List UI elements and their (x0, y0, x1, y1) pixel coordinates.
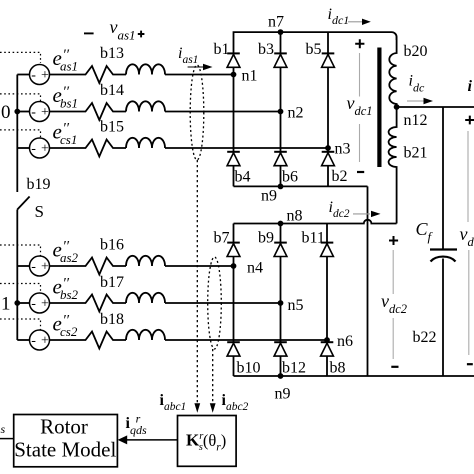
svg-text:State Model: State Model (14, 438, 116, 462)
vdc2 measurement line (392, 250, 394, 294)
svg-text:n2: n2 (288, 105, 304, 122)
node n5 (278, 300, 284, 306)
output measurement plus (465, 116, 474, 125)
svg-text:as2: as2 (60, 250, 79, 265)
control dashed line to source e''cs1 (0, 130, 41, 138)
measuring ellipse i_abc1 (190, 65, 204, 160)
node 1 (14, 300, 20, 306)
output measurement minus (467, 363, 473, 365)
node n9 bridge1 (278, 184, 284, 190)
switch S blade (17, 197, 29, 210)
wire row cs2 to n6 (165, 339, 327, 341)
wire stub to source as2 (17, 265, 29, 267)
svg-text:+: + (41, 260, 49, 275)
vdc2 measurement minus (391, 366, 398, 368)
inductor b21 (389, 107, 397, 224)
capacitor Cf branch wire bottom (442, 259, 444, 377)
svg-text:b16: b16 (100, 237, 124, 254)
svg-text:b3: b3 (258, 41, 274, 58)
source e''as2 (30, 256, 50, 276)
svg-text:Rotor: Rotor (40, 414, 88, 438)
svg-text:+: + (41, 68, 49, 83)
wire stub to source bs1 (17, 111, 29, 113)
wire bridge2 leg3 (326, 224, 328, 377)
wire row as1 to n1 (165, 74, 234, 76)
wire bridge2 leg2 (280, 224, 282, 377)
node n6 (324, 337, 330, 343)
wire stub to source cs2 (17, 339, 29, 341)
node 0 (14, 109, 20, 115)
resistor b16 (50, 258, 127, 275)
source e''bs1 (30, 102, 50, 122)
wire left bus lower (node 1) (16, 210, 18, 341)
source e''as1 (30, 65, 50, 85)
svg-text:b15: b15 (100, 119, 124, 136)
diode b4 (227, 152, 250, 186)
wire row bs1 to n2 (165, 111, 281, 113)
dashed arrow i_abc1 to K block (196, 160, 198, 404)
diode b1 (214, 41, 240, 67)
node n2 (278, 109, 284, 115)
svg-text:n5: n5 (288, 297, 304, 314)
svg-text:n9: n9 (275, 386, 291, 403)
measuring ellipse i_abc2 (208, 257, 222, 349)
diode b6 (274, 152, 298, 186)
resistor b17 (50, 295, 127, 312)
svg-text:+: + (41, 334, 49, 349)
svg-text:1: 1 (1, 294, 11, 315)
wire row cs1 to n3 (165, 147, 328, 149)
wire stub to source as1 (17, 74, 29, 76)
diode b11 (302, 230, 334, 257)
output measurement line (467, 131, 469, 222)
block K_s^r(theta_r) (178, 416, 237, 467)
resistor b14 (50, 103, 127, 120)
svg-text:S: S (35, 202, 44, 221)
svg-text:+: + (41, 297, 49, 312)
diode b7 (214, 230, 240, 257)
wire bridge1 top rail n7 (234, 32, 397, 186)
diode b12 (274, 342, 306, 376)
node n1 (231, 72, 237, 78)
svg-text:cs2: cs2 (60, 324, 78, 339)
svg-text:b10: b10 (237, 360, 261, 377)
svg-text:n7: n7 (268, 14, 284, 31)
svg-text:b8: b8 (330, 360, 346, 377)
svg-text:cs1: cs1 (60, 132, 77, 147)
svg-text:-: - (31, 334, 36, 349)
svg-text:n12: n12 (404, 112, 428, 129)
vdc2 measurement plus (389, 236, 398, 245)
wire n12 to output (397, 106, 474, 108)
resistor b13 (50, 66, 127, 83)
svg-text:b11: b11 (302, 230, 325, 247)
svg-text:b20: b20 (404, 43, 428, 60)
svg-text:-: - (31, 68, 36, 83)
control dashed line to source e''as2 (0, 245, 41, 256)
transformer core bar (377, 48, 381, 168)
diode b8 (321, 342, 346, 376)
node n12 (394, 104, 400, 110)
diode b10 (227, 342, 260, 376)
diode b9 (258, 230, 287, 257)
wire bridge2 top rail n8 with hop (234, 220, 397, 224)
svg-text:b13: b13 (100, 45, 124, 62)
wire bridge2 bottom rail n9 (234, 375, 474, 377)
diode b3 (258, 41, 287, 67)
inductor Las2 (126, 256, 165, 266)
svg-text:n1: n1 (242, 68, 258, 85)
node n9 bridge2 (278, 373, 284, 379)
diode b2 (322, 152, 348, 185)
inductor Lcs2 (126, 330, 165, 340)
wire bridge1 bottom rail n9 (234, 185, 368, 187)
svg-text:-: - (31, 105, 36, 120)
node n3 (325, 145, 331, 151)
svg-text:s: s (1, 422, 6, 436)
svg-text:n9: n9 (261, 188, 277, 205)
label - v_as1 + (84, 32, 94, 34)
svg-text:-: - (31, 297, 36, 312)
svg-text:b7: b7 (214, 230, 230, 247)
capacitor Cf branch wire top (442, 107, 444, 249)
vdc1 measurement minus (357, 171, 364, 173)
svg-text:b17: b17 (100, 274, 124, 291)
wire stub to source cs1 (17, 147, 29, 149)
svg-text:b18: b18 (100, 311, 124, 328)
svg-text:+: + (41, 105, 49, 120)
svg-text:b19: b19 (27, 176, 51, 193)
wire bridge1 leg2 (280, 32, 282, 186)
inductor Lbs1 (126, 101, 165, 111)
source e''cs2 (30, 330, 50, 350)
control dashed line to source e''bs1 (0, 94, 41, 101)
wire bridge1 leg3 (327, 32, 329, 186)
svg-text:bs1: bs1 (60, 96, 78, 111)
svg-text:as1: as1 (60, 59, 78, 74)
wire bridge2 leg1 (233, 224, 235, 377)
svg-text:b12: b12 (282, 360, 306, 377)
inductor Lcs1 (126, 138, 165, 148)
svg-text:b5: b5 (306, 41, 322, 58)
svg-text:n4: n4 (247, 260, 263, 277)
svg-text:b9: b9 (258, 230, 274, 247)
node n7 (278, 29, 284, 35)
wire row bs2 to n5 (165, 302, 281, 304)
wire stub to source bs2 (17, 302, 29, 304)
svg-text:n6: n6 (337, 333, 353, 350)
inductor Las1 (126, 64, 165, 74)
block rotor state model (14, 415, 118, 467)
control dashed line to source e''bs2 (0, 284, 41, 293)
svg-text:+: + (41, 142, 49, 157)
svg-text:b6: b6 (282, 169, 298, 186)
vdc1 measurement line (359, 53, 361, 97)
inductor b20 (389, 37, 396, 107)
wire left bus upper (node 0) (16, 75, 18, 193)
svg-text:b2: b2 (332, 168, 348, 185)
arrow rotor model output cut at edge (0, 438, 14, 440)
svg-text:b14: b14 (100, 82, 124, 99)
vdc1 measurement plus (355, 39, 364, 48)
control dashed line to source e''cs2 (0, 319, 41, 330)
svg-text:n3: n3 (335, 141, 351, 158)
wire dc link bridge1-minus to bottom rail (367, 186, 369, 376)
svg-text:-: - (31, 142, 36, 157)
svg-text:b4: b4 (235, 169, 251, 186)
wire row as2 to n4 (165, 265, 234, 267)
node n4 (231, 263, 237, 269)
resistor b15 (50, 140, 127, 157)
node n8 (278, 221, 284, 227)
source e''cs1 (30, 138, 50, 158)
resistor b18 (50, 332, 127, 349)
arrow K block to rotor model (126, 439, 178, 441)
svg-text:-: - (31, 260, 36, 275)
capacitor Cf (430, 248, 457, 250)
diode b5 (306, 41, 335, 67)
control dashed line to source e''as1 (0, 52, 41, 63)
svg-text:b21: b21 (404, 145, 428, 162)
source e''bs2 (30, 293, 50, 313)
svg-text:i: i (468, 78, 473, 95)
svg-text:b1: b1 (214, 41, 230, 58)
svg-text:n8: n8 (287, 208, 303, 225)
inductor Lbs2 (126, 293, 165, 303)
svg-text:bs2: bs2 (60, 287, 79, 302)
svg-text:0: 0 (1, 102, 11, 123)
svg-text:b22: b22 (413, 329, 437, 346)
dashed arrow i_abc2 to K block (212, 349, 214, 404)
